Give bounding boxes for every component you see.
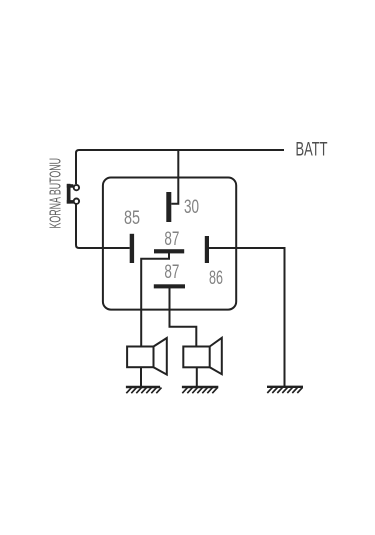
svg-text:87: 87 (164, 229, 179, 250)
svg-text:86: 86 (209, 267, 223, 288)
svg-text:KORNA BUTONU: KORNA BUTONU (46, 158, 65, 229)
svg-text:85: 85 (124, 207, 140, 228)
svg-text:87: 87 (164, 262, 179, 283)
svg-text:30: 30 (184, 197, 199, 218)
svg-text:BATT: BATT (296, 139, 328, 160)
